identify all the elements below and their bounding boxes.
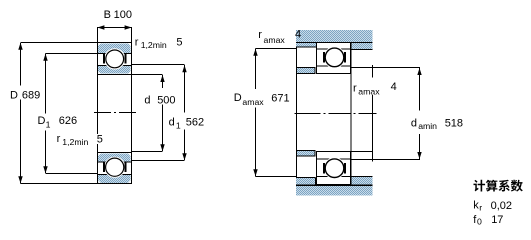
bore line bottom (98, 152, 131, 154)
groove cut (324, 157, 346, 179)
ball (325, 159, 344, 178)
shaft shoulder face tick right-top (372, 65, 374, 77)
svg-text:562: 562 (186, 117, 204, 129)
svg-text:d: d (144, 94, 150, 106)
bearing outline rect (97, 42, 132, 184)
svg-text:518: 518 (445, 117, 463, 129)
dimension damin 518 (419, 68, 421, 159)
dimension d 500 (132, 75, 163, 152)
centerline right figure (dash-dot) (295, 113, 377, 115)
inner ring top band (blue) (98, 66, 130, 74)
inner ring band bottom line (317, 158, 351, 160)
svg-text:5: 5 (97, 134, 103, 146)
svg-text:1: 1 (176, 121, 181, 131)
svg-text:1: 1 (46, 119, 51, 129)
svg-text:500: 500 (157, 94, 175, 106)
outer ring top band (blue) (98, 43, 130, 53)
housing bottom-left tab right face (314, 177, 316, 185)
inner ring top band top line (98, 65, 131, 67)
gap in left outline for lower "5" label (96, 134, 99, 144)
svg-text:r: r (135, 36, 139, 48)
dimension D1 626 (46, 54, 98, 174)
housing right tab bottom line (352, 49, 373, 51)
svg-text:r: r (479, 202, 482, 212)
inner ring bottom band bottom line (98, 161, 131, 163)
outer ring top band bottom line (98, 53, 131, 55)
svg-text:1,2min: 1,2min (141, 40, 167, 50)
svg-text:0,02: 0,02 (491, 200, 512, 212)
svg-text:amax: amax (242, 97, 264, 107)
housing top (blue band with shoulder tabs) (296, 30, 373, 49)
cage marks bottom (103, 163, 105, 172)
svg-text:d: d (411, 117, 417, 129)
housing bottom-right tab top line (352, 175, 373, 177)
groove cut around bottom ball (104, 157, 125, 178)
svg-text:689: 689 (22, 90, 40, 102)
inner ring bottom band (blue) (98, 153, 130, 162)
groove cut (324, 47, 346, 69)
svg-text:D: D (234, 92, 242, 104)
groove cut around top ball (104, 48, 125, 69)
svg-text:4: 4 (391, 81, 397, 93)
text block: calculation factors (474, 180, 523, 192)
dimension d1 562 (132, 65, 185, 161)
shaft seat line right-bottom (351, 151, 372, 153)
svg-text:r: r (353, 83, 357, 95)
svg-text:5: 5 (176, 36, 182, 48)
top ball (106, 50, 124, 68)
outer ring bottom band (blue) (98, 175, 130, 183)
shaft shoulder strip bottom-left (blue) (296, 151, 315, 157)
svg-text:D: D (38, 115, 46, 127)
svg-text:D: D (10, 90, 18, 102)
bearing top section (right figure) (316, 42, 351, 74)
cage marks (323, 52, 325, 62)
dimension B 100 (97, 27, 131, 42)
cage marks (323, 163, 325, 173)
housing bottom-left tab top line (296, 176, 315, 178)
svg-text:100: 100 (114, 9, 132, 21)
svg-text:amax: amax (264, 35, 286, 45)
svg-text:k: k (473, 200, 479, 212)
svg-text:1,2min: 1,2min (62, 137, 88, 147)
svg-text:4: 4 (295, 28, 301, 40)
inner ring band top line (317, 65, 351, 67)
svg-text:amax: amax (358, 87, 380, 97)
svg-text:d: d (169, 116, 175, 128)
housing bore line (296, 42, 373, 44)
svg-text:17: 17 (491, 214, 503, 226)
shaft shoulder face line right-bottom (372, 95, 374, 162)
outer ring band bottom line (317, 48, 351, 50)
centerline (dash-dot) (94, 112, 136, 114)
shaft shoulder surface line right-top (351, 67, 420, 69)
housing left tab bottom line (296, 46, 316, 48)
cage marks top (103, 54, 105, 63)
chamfer cuts on ring corners (98, 43, 101, 46)
bore line top (inner ring bore) (98, 74, 131, 76)
shaft/housing face vertical line left (296, 47, 298, 178)
dimension Damax 671 (256, 49, 297, 177)
dimension D 689 (21, 43, 98, 184)
ball (325, 48, 344, 67)
bottom ball (106, 158, 124, 176)
housing bottom (blue band with shoulder tabs) (296, 176, 373, 195)
outer ring bottom band top line (98, 174, 131, 176)
svg-text:r: r (57, 133, 61, 145)
shaft shoulder surface line right-bottom (351, 159, 420, 161)
outer ring band top line (317, 176, 351, 178)
bearing right edge middle segment (350, 74, 352, 152)
svg-text:r: r (258, 29, 262, 41)
svg-text:671: 671 (271, 93, 289, 105)
svg-text:B: B (104, 9, 111, 21)
svg-text:amin: amin (418, 121, 437, 131)
bearing bottom section (right figure) (316, 151, 351, 185)
svg-text:626: 626 (59, 115, 77, 127)
housing seat line bottom (296, 184, 373, 186)
svg-text:0: 0 (477, 217, 482, 227)
shaft shoulder strip top-left (blue) (297, 68, 316, 74)
